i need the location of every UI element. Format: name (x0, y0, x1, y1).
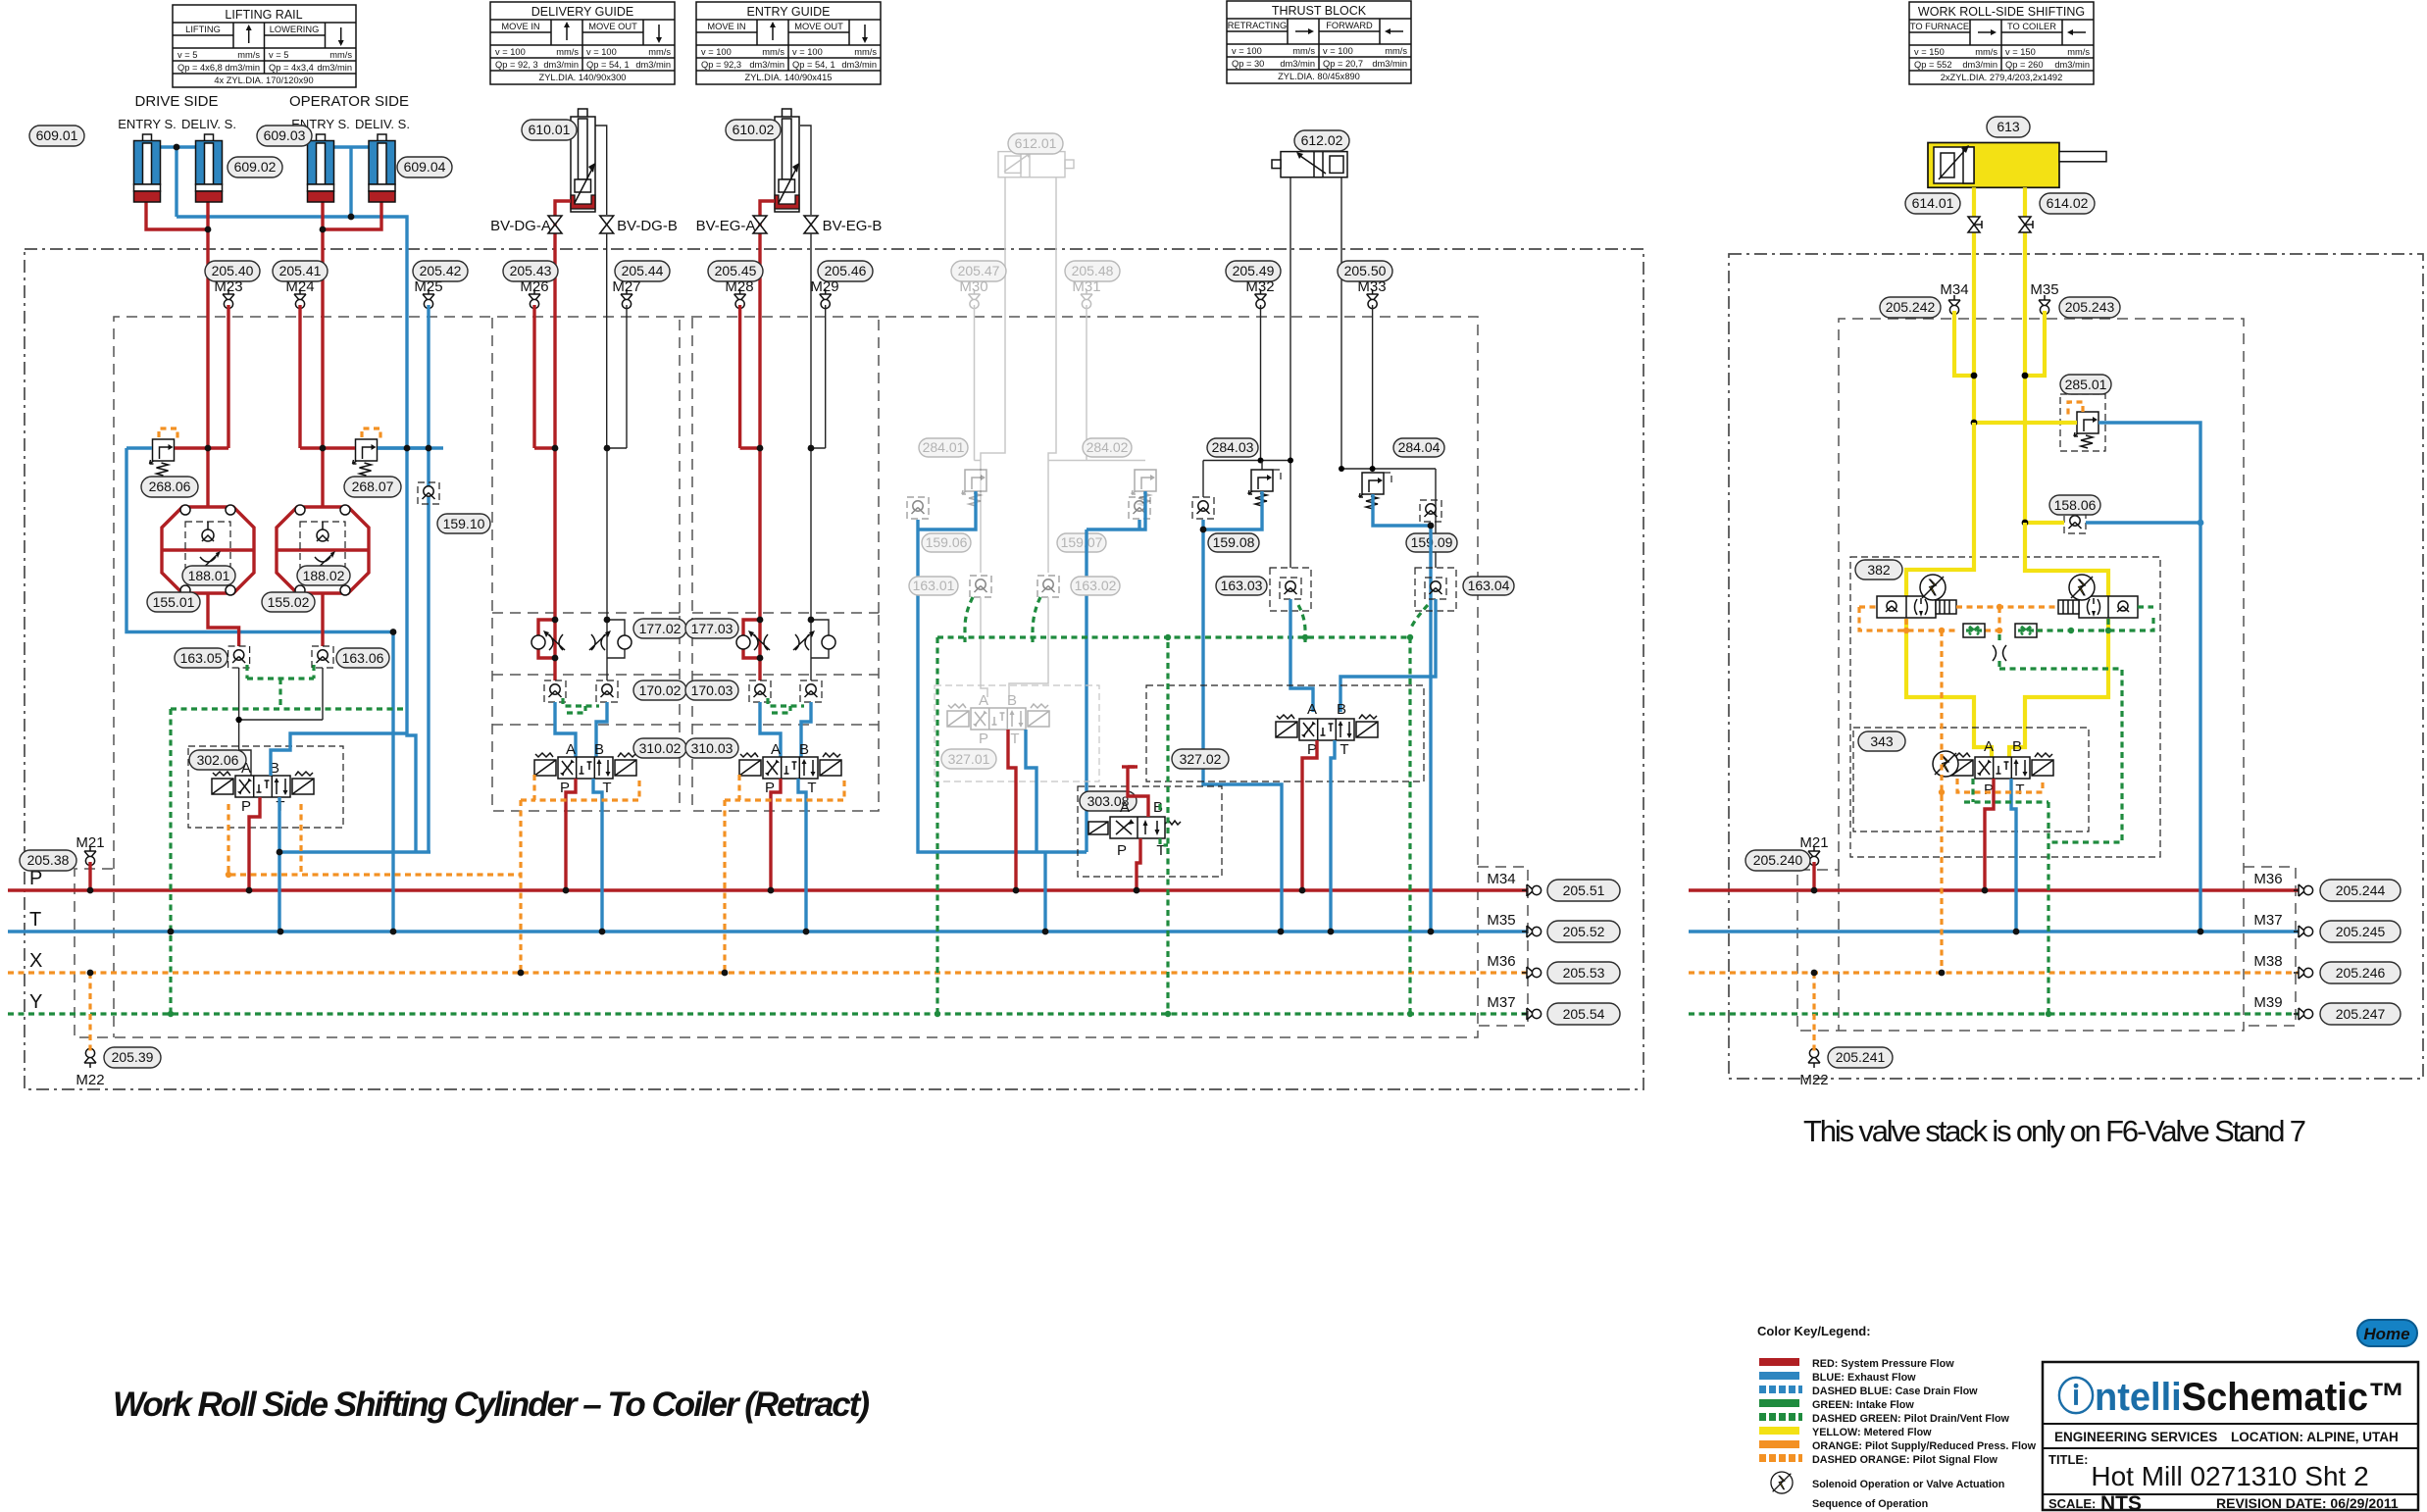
flow control block 188.02 (277, 448, 369, 646)
check valve 158.06 (2064, 512, 2086, 533)
ghost 327.01 box (935, 685, 1099, 781)
svg-text:BV-DG-A: BV-DG-A (490, 218, 551, 234)
wire green pilot 163.03-04 (1298, 605, 1428, 1014)
svg-text:THRUST BLOCK: THRUST BLOCK (1272, 4, 1367, 18)
svg-text:310.03: 310.03 (691, 740, 733, 756)
check valve 170.03b (800, 680, 822, 702)
wire 302.06 P (249, 797, 260, 890)
svg-text:A: A (1984, 738, 1994, 755)
directional valve 310.03 (739, 753, 841, 779)
svg-text:M36: M36 (2253, 871, 2282, 887)
svg-text:188.02: 188.02 (303, 568, 345, 583)
restrictor symbol (1993, 645, 2006, 661)
wire M22 stub right (1812, 973, 1815, 1051)
test point M23 (223, 289, 234, 309)
relief valve 284.04 (1359, 473, 1384, 509)
cartridge valve 382 left (1877, 596, 1936, 618)
wire green pilot left (171, 665, 407, 1014)
flow control block 188.01 (162, 448, 254, 646)
svg-text:mm/s: mm/s (237, 50, 260, 60)
svg-text:159.06: 159.06 (926, 534, 968, 550)
svg-text:NTS: NTS (2100, 1492, 2142, 1512)
svg-text:MOVE OUT: MOVE OUT (794, 22, 843, 31)
ball valve BV-EG-A (753, 216, 767, 233)
svg-text:Qp = 54, 1: Qp = 54, 1 (792, 60, 835, 70)
svg-text:TITLE:: TITLE: (2048, 1452, 2088, 1467)
svg-text:Qp = 260: Qp = 260 (2005, 60, 2044, 70)
svg-text:A: A (566, 741, 576, 758)
outer station box right (1729, 254, 2423, 1079)
svg-text:609.04: 609.04 (404, 159, 446, 175)
svg-text:REVISION DATE: 06/29/2011: REVISION DATE: 06/29/2011 (2216, 1495, 2399, 1511)
svg-text:284.02: 284.02 (1087, 439, 1129, 455)
svg-text:Y: Y (29, 991, 42, 1013)
wire 613 yellow ports (1974, 187, 2025, 523)
svg-text:382: 382 (1867, 562, 1891, 578)
wire 610.02 black port (810, 233, 812, 448)
svg-text:614.02: 614.02 (2047, 195, 2089, 211)
flow control 177.03 (736, 448, 835, 680)
svg-text:T: T (29, 909, 41, 931)
check valve 170.02a (544, 680, 566, 702)
test point M21 right (1808, 846, 1820, 866)
relief valve 268.06 (150, 439, 175, 476)
wire green pilot 382 (2037, 607, 2153, 630)
svg-text:mm/s: mm/s (762, 47, 784, 57)
wire 327.01 P (1008, 730, 1016, 890)
wire 159.06 blue (918, 491, 1087, 932)
svg-text:RETRACTING: RETRACTING (1228, 21, 1287, 30)
spec table THRUST BLOCK (1227, 1, 1411, 83)
check valve 163.06 (312, 646, 333, 668)
wire P bus right (1689, 888, 2299, 891)
svg-text:ZYL.DIA. 140/90x300: ZYL.DIA. 140/90x300 (539, 73, 627, 82)
wire blue pair2 top (333, 147, 369, 217)
entry guide column box (692, 318, 879, 811)
svg-text:TO FURNACE: TO FURNACE (1910, 22, 1969, 31)
svg-text:ZYL.DIA. 140/90x415: ZYL.DIA. 140/90x415 (745, 73, 833, 82)
wire 159.08 blue (1203, 491, 1282, 932)
svg-text:Qp = 92, 3: Qp = 92, 3 (495, 60, 538, 70)
svg-text:DASHED ORANGE: Pilot Signal Fl: DASHED ORANGE: Pilot Signal Flow (1812, 1454, 1998, 1466)
orifice b (2015, 624, 2037, 637)
svg-text:205.242: 205.242 (1886, 299, 1936, 315)
svg-text:mm/s: mm/s (556, 47, 579, 57)
wire 268.07 ports (323, 446, 355, 449)
test point M22 right (1808, 1048, 1820, 1068)
svg-text:163.06: 163.06 (342, 650, 384, 666)
wire 158.06 blue out (2086, 521, 2200, 524)
svg-text:M21: M21 (1799, 834, 1828, 851)
svg-text:WORK ROLL-SIDE SHIFTING: WORK ROLL-SIDE SHIFTING (1918, 5, 2085, 19)
wire P bus left (8, 888, 1528, 891)
svg-text:614.01: 614.01 (1912, 195, 1954, 211)
svg-text:205.243: 205.243 (2065, 299, 2115, 315)
wire 343 P (1985, 779, 1994, 890)
dashed box 303.08 (1078, 786, 1222, 877)
svg-text:284.04: 284.04 (1398, 439, 1441, 455)
wire 610.01 black port (606, 233, 608, 448)
svg-text:Qp = 552: Qp = 552 (1914, 60, 1952, 70)
svg-text:T: T (1340, 741, 1348, 758)
wire 610.01 red port (555, 201, 571, 448)
check valve 163.02 ghost (1037, 576, 1059, 597)
svg-text:LIFTING: LIFTING (185, 25, 221, 34)
wire blue return loop (126, 448, 430, 932)
wire M26 stub (534, 305, 555, 448)
Home button (2357, 1320, 2417, 1346)
wire M21 stub right (1812, 862, 1815, 890)
spec table DELIVERY GUIDE (490, 2, 675, 84)
svg-text:dm3/min: dm3/min (635, 60, 671, 70)
test point 205.247 (2294, 1008, 2313, 1020)
svg-text:Qp = 30: Qp = 30 (1232, 59, 1264, 69)
junction dots P bus (87, 887, 1989, 894)
wire yellow left loop (1906, 423, 1992, 761)
svg-text:ZYL.DIA. 80/45x890: ZYL.DIA. 80/45x890 (1278, 72, 1360, 81)
svg-text:SCALE:: SCALE: (2048, 1496, 2096, 1511)
svg-text:205.50: 205.50 (1344, 263, 1387, 278)
svg-text:T: T (1010, 731, 1019, 747)
svg-text:OPERATOR SIDE: OPERATOR SIDE (289, 93, 409, 110)
inner manifold box left (75, 317, 1478, 1037)
svg-text:205.47: 205.47 (958, 263, 1000, 278)
wire blue pair1 top (160, 147, 196, 217)
wire 170.03 to valve (760, 702, 811, 757)
svg-text:4x ZYL.DIA. 170/120x90: 4x ZYL.DIA. 170/120x90 (214, 76, 313, 85)
svg-text:612.02: 612.02 (1301, 132, 1343, 148)
svg-text:Qp = 20,7: Qp = 20,7 (1323, 59, 1363, 69)
wire M27 stub (607, 305, 627, 448)
wire 284.03 top (1203, 461, 1262, 498)
wire ghost valve lines (981, 597, 1048, 697)
svg-text:268.06: 268.06 (149, 479, 191, 494)
svg-text:MOVE IN: MOVE IN (501, 22, 539, 31)
svg-text:P: P (241, 798, 251, 815)
test point M25 (423, 289, 434, 309)
svg-text:M22: M22 (76, 1072, 104, 1088)
svg-text:205.42: 205.42 (420, 263, 462, 278)
wire yellow right loop (2009, 523, 2108, 761)
svg-text:v = 100: v = 100 (792, 47, 823, 57)
svg-text:2xZYL.DIA. 279,4/203,2x1492: 2xZYL.DIA. 279,4/203,2x1492 (1941, 73, 2063, 82)
test point 205.53 (1522, 967, 1542, 979)
wire 310.02 orange pilot (521, 775, 639, 973)
svg-text:ⓘntelliSchematic™: ⓘntelliSchematic™ (2057, 1376, 2405, 1419)
wire M24 stub (300, 305, 323, 448)
check valve 163.05 (228, 646, 250, 668)
test point M28 (734, 289, 746, 309)
relief valve 284.02 ghost (1132, 470, 1156, 506)
wire M28 stub (740, 305, 760, 448)
svg-text:613: 613 (1997, 119, 2020, 134)
check valve 170.02b (596, 680, 618, 702)
svg-text:205.245: 205.245 (2336, 924, 2386, 939)
manifold box 382 (1850, 557, 2160, 857)
wire M22 stub left (88, 973, 91, 1051)
check valve 159.09 (1420, 500, 1441, 522)
svg-text:dm3/min: dm3/min (841, 60, 877, 70)
bus exit box right (2244, 867, 2296, 1026)
svg-text:205.246: 205.246 (2336, 965, 2386, 981)
title block (2043, 1362, 2418, 1512)
svg-text:163.04: 163.04 (1468, 578, 1510, 593)
test point M33 (1367, 289, 1379, 309)
ball valve BV-DG-B (600, 216, 614, 233)
wire 310.03 P (771, 779, 781, 890)
svg-text:Hot Mill 0271310 Sht 2: Hot Mill 0271310 Sht 2 (2091, 1461, 2368, 1491)
svg-text:ENGINEERING SERVICES: ENGINEERING SERVICES (2054, 1430, 2217, 1444)
svg-text:155.01: 155.01 (153, 594, 195, 610)
solenoid right (2069, 575, 2095, 600)
svg-text:Qp = 54, 1: Qp = 54, 1 (586, 60, 630, 70)
svg-text:327.02: 327.02 (1180, 751, 1222, 767)
svg-text:P: P (979, 731, 988, 747)
spec table ENTRY GUIDE (696, 2, 881, 84)
svg-text:158.06: 158.06 (2054, 497, 2097, 513)
test point M30 ghost (969, 289, 981, 309)
svg-text:B: B (594, 741, 604, 758)
svg-text:609.02: 609.02 (234, 159, 277, 175)
svg-text:GREEN: Intake Flow: GREEN: Intake Flow (1812, 1399, 1914, 1411)
svg-text:177.03: 177.03 (691, 621, 733, 636)
wire M32 stub (1203, 305, 1290, 461)
wire checks to valve A (239, 668, 323, 776)
wire 302.06 T (278, 797, 280, 852)
wire blue manifold (177, 217, 407, 448)
test point M29 (820, 289, 832, 309)
svg-text:205.51: 205.51 (1563, 882, 1605, 898)
svg-text:v = 5: v = 5 (269, 50, 288, 60)
svg-text:Work Roll Side Shifting Cylind: Work Roll Side Shifting Cylinder – To Co… (113, 1386, 870, 1424)
svg-text:163.05: 163.05 (180, 650, 223, 666)
svg-text:LOWERING: LOWERING (270, 25, 320, 34)
oval 609.02 (228, 157, 282, 177)
wire X bus right (1689, 971, 2299, 974)
svg-text:159.10: 159.10 (443, 516, 485, 531)
svg-text:v = 5: v = 5 (177, 50, 197, 60)
wire M35 stub (2025, 311, 2045, 376)
svg-text:M34: M34 (1940, 281, 1968, 298)
svg-text:MOVE OUT: MOVE OUT (588, 22, 637, 31)
svg-text:v = 100: v = 100 (495, 47, 526, 57)
svg-text:A: A (979, 692, 988, 709)
check valve 159.06 ghost box (907, 497, 929, 519)
svg-text:DASHED GREEN: Pilot Drain/Vent: DASHED GREEN: Pilot Drain/Vent Flow (1812, 1413, 2010, 1425)
svg-text:ENTRY S.: ENTRY S. (118, 117, 176, 131)
svg-text:610.01: 610.01 (529, 122, 571, 137)
svg-text:mm/s: mm/s (1975, 47, 1997, 57)
wire green pilot entry (768, 698, 804, 713)
test point M22 left (84, 1048, 96, 1068)
svg-text:v = 100: v = 100 (1232, 46, 1262, 56)
svg-text:DRIVE SIDE: DRIVE SIDE (134, 93, 218, 110)
oval 310.03 (685, 738, 738, 758)
test point 205.244 (2294, 884, 2313, 896)
wire M33 stub (1341, 305, 1436, 568)
check valve 163.01 ghost (970, 576, 991, 597)
svg-text:A: A (771, 741, 781, 758)
svg-text:163.02: 163.02 (1075, 578, 1117, 593)
check valve 159.08 (1192, 497, 1214, 519)
wire 163.04 blue to B (1340, 599, 1436, 712)
svg-text:P: P (1117, 842, 1127, 859)
svg-text:dm3/min: dm3/min (1962, 60, 1997, 70)
svg-text:T: T (2015, 781, 2024, 798)
spec table WORK ROLL-SIDE SHIFTING (1909, 2, 2094, 84)
relief valve 284.03 (1248, 470, 1273, 506)
svg-text:205.38: 205.38 (27, 852, 70, 868)
svg-text:188.01: 188.01 (188, 568, 230, 583)
outer station box left (25, 249, 1643, 1089)
svg-text:LOCATION: ALPINE, UTAH: LOCATION: ALPINE, UTAH (2231, 1430, 2399, 1444)
cylinder 609.03 (308, 134, 334, 202)
svg-text:v = 150: v = 150 (1914, 47, 1945, 57)
orifice a (1963, 624, 1985, 637)
svg-text:M35: M35 (2030, 281, 2058, 298)
svg-text:205.40: 205.40 (212, 263, 254, 278)
test point 205.51 (1522, 884, 1542, 896)
wire 302.06 B to blue (271, 733, 407, 776)
oval 310.02 (633, 738, 686, 758)
relief valve 284.01 ghost (962, 470, 986, 506)
wire 303.08 green (1160, 804, 1168, 845)
directional valve 343 (1951, 753, 2053, 779)
wire 610.02 red port (760, 201, 775, 448)
inner manifold box right (1797, 319, 2244, 1031)
svg-text:205.39: 205.39 (112, 1049, 154, 1065)
relief valve 285.01 (2060, 394, 2105, 451)
svg-text:LIFTING RAIL: LIFTING RAIL (225, 8, 302, 22)
wire green center drop (1997, 634, 2000, 669)
svg-text:B: B (2012, 738, 2022, 755)
svg-text:RED: System Pressure Flow: RED: System Pressure Flow (1812, 1358, 1954, 1370)
svg-text:T: T (807, 780, 816, 796)
test point 205.54 (1522, 1008, 1542, 1020)
wire 159.07 blue (1087, 491, 1145, 852)
svg-text:BV-EG-B: BV-EG-B (823, 218, 883, 234)
svg-text:205.240: 205.240 (1753, 852, 1803, 868)
svg-text:Qp = 92,3: Qp = 92,3 (701, 60, 741, 70)
junction dots misc (174, 144, 1435, 856)
svg-text:dm3/min: dm3/min (317, 63, 352, 73)
directional valve 303.08 (1088, 817, 1181, 838)
cylinder 610.02 (775, 109, 811, 215)
svg-text:X: X (29, 950, 42, 972)
bus exit box left (1478, 867, 1528, 1026)
ball valve 614.01 (1968, 217, 1982, 232)
wire 327.02 T (1331, 740, 1335, 932)
test point M32 (1255, 289, 1267, 309)
wire blue M25 drop (427, 448, 430, 852)
wire 310.02 T (593, 779, 602, 932)
svg-text:B: B (1007, 692, 1017, 709)
svg-text:YELLOW: Metered Flow: YELLOW: Metered Flow (1812, 1427, 1932, 1438)
svg-text:M39: M39 (2253, 994, 2282, 1011)
svg-text:327.01: 327.01 (948, 751, 990, 767)
svg-text:284.03: 284.03 (1212, 439, 1254, 455)
svg-text:TO COILER: TO COILER (2007, 22, 2056, 31)
solenoid left (1920, 575, 1946, 600)
directional valve 310.02 (534, 753, 636, 779)
test point 205.52 (1522, 926, 1542, 937)
svg-text:155.02: 155.02 (268, 594, 310, 610)
svg-text:mm/s: mm/s (329, 50, 352, 60)
wire M25 stub (378, 305, 429, 448)
svg-text:205.44: 205.44 (622, 263, 664, 278)
svg-text:DELIV. S.: DELIV. S. (181, 117, 236, 131)
test point M26 (529, 289, 540, 309)
svg-text:343: 343 (1870, 733, 1894, 749)
oval 609.04 (397, 157, 452, 177)
svg-text:This valve stack is only on F6: This valve stack is only on F6-Valve Sta… (1803, 1114, 2306, 1148)
legend solenoid symbol (1771, 1472, 1793, 1493)
svg-text:205.46: 205.46 (825, 263, 867, 278)
svg-text:Home: Home (2363, 1325, 2409, 1343)
test point M24 (294, 289, 306, 309)
svg-text:170.03: 170.03 (691, 682, 733, 698)
svg-text:163.03: 163.03 (1221, 578, 1263, 593)
oval 609.03 (257, 126, 312, 146)
svg-text:302.06: 302.06 (197, 752, 239, 768)
wire 310.03 orange pilot (725, 775, 844, 973)
svg-text:BV-EG-A: BV-EG-A (696, 218, 756, 234)
svg-text:M34: M34 (1487, 871, 1515, 887)
wire 285.01 blue out (2098, 423, 2200, 932)
svg-text:MOVE IN: MOVE IN (707, 22, 745, 31)
cylinder 609.02 (196, 134, 223, 202)
svg-text:dm3/min: dm3/min (2054, 60, 2090, 70)
check valve 159.10 (418, 482, 439, 504)
svg-text:612.01: 612.01 (1015, 135, 1057, 151)
svg-text:DASHED BLUE: Case Drain Flow: DASHED BLUE: Case Drain Flow (1812, 1386, 1978, 1397)
svg-text:205.41: 205.41 (279, 263, 322, 278)
svg-text:205.43: 205.43 (510, 263, 552, 278)
svg-text:609.03: 609.03 (264, 127, 306, 143)
wire Y bus left (8, 1012, 1528, 1015)
svg-text:M22: M22 (1799, 1072, 1828, 1088)
svg-text:M36: M36 (1487, 953, 1515, 970)
cylinder 609.01 (134, 134, 161, 202)
svg-text:DELIVERY GUIDE: DELIVERY GUIDE (531, 5, 633, 19)
dashed box 302.06 (188, 746, 343, 828)
wire orange pilot 382 (1859, 607, 2058, 630)
svg-text:M37: M37 (2253, 912, 2282, 929)
svg-text:609.01: 609.01 (36, 127, 78, 143)
oval 609.01 (29, 126, 84, 146)
svg-text:205.247: 205.247 (2336, 1006, 2386, 1022)
svg-text:159.07: 159.07 (1061, 534, 1103, 550)
cartridge valve 382 right (2079, 596, 2138, 618)
svg-text:205.45: 205.45 (715, 263, 757, 278)
svg-text:205.52: 205.52 (1563, 924, 1605, 939)
svg-text:205.54: 205.54 (1563, 1006, 1605, 1022)
cylinder 612.02 (1272, 152, 1347, 177)
wire 612.01 ports ghost (981, 177, 1056, 573)
svg-text:Qp = 4x3,4: Qp = 4x3,4 (269, 63, 314, 73)
check valve 159.07 ghost box (1129, 497, 1150, 519)
wire 612.02 ports (1290, 177, 1341, 568)
delivery guide column box (492, 318, 680, 811)
wire 268.06 ports (126, 446, 152, 449)
solenoid 343 (1933, 751, 1958, 777)
check valve 163.03 (1280, 578, 1301, 599)
wire green pilot delivery (563, 698, 599, 713)
svg-text:205.244: 205.244 (2336, 882, 2386, 898)
svg-text:610.02: 610.02 (733, 122, 775, 137)
svg-text:dm3/min: dm3/min (1372, 59, 1407, 69)
legend rows (1759, 1358, 2037, 1466)
